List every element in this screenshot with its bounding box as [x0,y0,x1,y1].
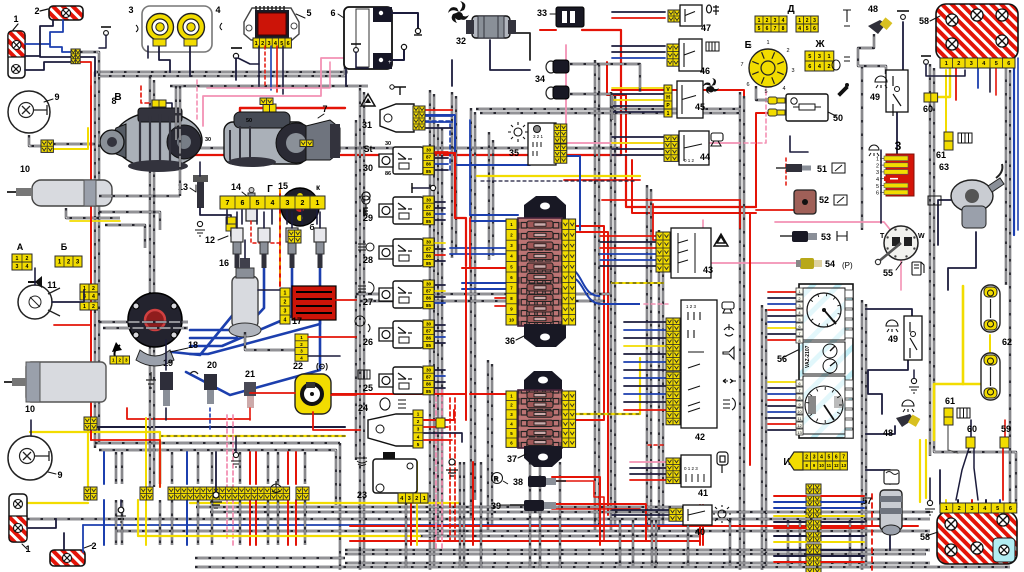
wire 58b feeds [945,500,947,512]
svg-text:86: 86 [426,162,432,167]
wire G strip drops [226,210,228,224]
svg-text:1: 1 [758,18,761,24]
wire 9b yellow link [30,420,32,436]
svg-text:23: 23 [357,490,367,500]
svg-text:7: 7 [226,200,230,207]
svg-text:15: 15 [278,181,288,191]
sensor 21 [244,382,256,396]
svg-text:+: + [388,60,392,66]
wire red vertical 653 [653,204,660,240]
wire 48a drop [858,34,886,74]
svg-text:21: 21 [245,369,255,379]
svg-text:37: 37 [507,454,517,464]
wire right bottom risers [599,505,601,545]
cluster pin strips [796,288,803,294]
svg-text:1: 1 [423,496,426,502]
svg-text:87: 87 [426,246,432,251]
svg-text:3: 3 [284,308,287,314]
svg-text:2: 2 [91,541,96,551]
svg-text:W: W [918,233,925,240]
lamp 24 [368,414,414,446]
svg-text:86: 86 [426,254,432,259]
svg-text:R: R [494,477,499,483]
ground symbols right [449,459,455,465]
symbol washer 16 [271,481,281,493]
lamp block 58 bottom [937,512,1017,564]
svg-text:3: 3 [774,18,777,24]
wire coil16 top [244,240,246,258]
svg-text:12: 12 [834,463,839,468]
wire box2 dark drop [40,20,71,57]
switch 47 [668,10,680,22]
svg-text:5: 5 [806,26,809,32]
relay 30 [393,147,423,174]
conn 61a [944,132,953,141]
wire red relay30 [425,153,466,266]
svg-text:87: 87 [426,374,432,379]
wire blue right edge from lamp58 [1013,58,1015,235]
wire red 59 drop [1002,448,1004,500]
svg-text:VAZ-2107: VAZ-2107 [805,345,811,368]
svg-text:61: 61 [945,396,955,406]
switch 35 [528,123,556,165]
wire box2b links [63,533,65,550]
conn horn 9a [41,140,53,152]
lamp block 58 top [936,4,1018,60]
ground bottom-left B [120,500,122,507]
svg-text:45: 45 [695,102,705,112]
unit 52 [794,190,816,214]
svg-text:17: 17 [292,316,302,326]
wire 22 red right [331,394,356,396]
svg-text:30: 30 [426,321,432,326]
regulator 17 [292,286,336,320]
capacitor 14 [246,202,257,221]
svg-text:3: 3 [813,454,816,460]
svg-text:4: 4 [26,264,29,270]
wire blue fusebox left pairs [470,214,518,216]
wire red y200 [602,200,740,228]
svg-text:5: 5 [876,184,879,190]
T symbol near 31 [394,87,406,95]
top mid connectors [260,98,273,105]
wire headlamp drops [159,46,170,72]
wire top horizontal y86 [170,85,368,87]
svg-text:31: 31 [362,120,372,130]
wire yellow bottom right risers [919,440,921,502]
T ground near module5 [231,47,242,49]
svg-text:44: 44 [700,152,710,162]
sensor 39 [524,500,544,511]
svg-text:6: 6 [1007,61,1010,67]
svg-text:87: 87 [426,154,432,159]
svg-text:2: 2 [415,496,418,502]
svg-text:Б: Б [61,242,68,252]
switch 45 [664,85,672,109]
svg-text:30: 30 [426,281,432,286]
fuel pump symbol [912,262,924,275]
unit 22 [295,374,331,414]
svg-text:49: 49 [888,334,898,344]
sensor 48b [896,414,914,427]
svg-text:38: 38 [513,477,523,487]
svg-text:1 2 3: 1 2 3 [686,304,697,309]
lamp symbol right [902,400,914,412]
wire 24 strip feeds [424,410,454,420]
svg-text:Д: Д [787,4,794,15]
svg-text:51: 51 [817,164,827,174]
wire switch column feeds [612,11,665,13]
svg-text:42: 42 [695,432,705,442]
wiper motor 63 [951,164,1004,228]
wire red fusebox stubs [462,267,518,269]
svg-text:4: 4 [417,434,420,439]
svg-text:54: 54 [825,259,835,269]
svg-text:35: 35 [509,148,519,158]
instrument cluster 56 [799,284,853,438]
sensor 19 [160,372,173,390]
svg-text:(P): (P) [842,261,853,270]
svg-text:1: 1 [13,14,18,24]
top-center T symbol [351,43,361,45]
svg-text:(⊙): (⊙) [316,362,328,371]
svg-text:2: 2 [417,419,420,424]
wire module5 drops [258,46,260,86]
svg-text:5: 5 [808,54,811,60]
svg-text:47: 47 [701,23,711,33]
wire pink dash pair left [226,415,228,540]
svg-text:86: 86 [426,336,432,341]
svg-text:5: 5 [417,442,420,447]
lamp 1 top-left [8,31,25,78]
svg-text:3: 3 [895,139,902,153]
svg-text:30: 30 [426,239,432,244]
svg-text:55: 55 [883,268,893,278]
right bottom colored horizontals [774,495,806,497]
wire top right horizontals [861,66,863,120]
top-right small symbols [843,10,851,26]
svg-text:1: 1 [16,256,19,262]
svg-text:30: 30 [426,147,432,152]
wire cylinder10a link [66,208,120,218]
wire pink center vertical [565,45,567,126]
conn 22 feeds [250,392,295,394]
svg-text:12: 12 [797,423,802,428]
svg-text:58: 58 [919,16,929,26]
svg-text:6: 6 [241,200,245,207]
svg-text:2: 2 [284,299,287,305]
svg-text:33: 33 [537,8,547,18]
svg-text:3: 3 [876,170,879,176]
conn 60b [966,437,975,448]
svg-text:2: 2 [766,18,769,24]
wire conn to frame [80,52,99,76]
wire cluster feed stubs [768,291,797,293]
switch 49b [904,316,922,360]
svg-text:48: 48 [868,4,878,14]
svg-text:2: 2 [301,200,305,207]
svg-text:8: 8 [111,96,116,106]
svg-text:62: 62 [1002,337,1012,347]
wire red artery y155 [170,30,621,155]
wire center bottom risers [405,462,407,568]
relay 28 [393,239,423,266]
wire 49a black [861,120,863,230]
sensor 20 [204,374,217,390]
wire 51 up [790,136,808,152]
svg-text:2: 2 [958,506,961,512]
wire y294 long horizontals [356,293,610,295]
svg-text:3: 3 [970,61,973,67]
conn near 15 [288,230,301,243]
wire pink dash to 42 top [644,303,668,305]
wire long horizontal y148 [170,147,620,149]
svg-text:86: 86 [385,171,391,177]
wire box1 lamp2 link [25,62,71,70]
svg-text:3: 3 [813,18,816,24]
wire red y419 [127,408,250,419]
washer tank 10a [32,180,112,206]
conn top-left [71,49,80,64]
svg-text:4: 4 [782,18,785,24]
svg-text:87: 87 [426,328,432,333]
svg-text:0 1 2: 0 1 2 [684,158,695,163]
lamps 62 [981,285,1000,332]
relay 27 [393,281,423,308]
svg-text:30: 30 [426,367,432,372]
svg-text:10: 10 [20,164,30,174]
conn pair mid-left [80,284,98,292]
wire 34 leads [570,64,640,92]
svg-text:58: 58 [920,532,930,542]
svg-text:19: 19 [163,358,173,368]
svg-text:48: 48 [883,428,893,438]
wire red to 52 [756,209,796,211]
svg-text:26: 26 [363,337,373,347]
svg-text:6: 6 [330,8,335,18]
fusebox 36 [524,196,566,220]
wire blue from 31 [425,115,530,165]
svg-text:6: 6 [287,41,290,47]
wire 13 drop [199,162,201,176]
bottom connector strip row [84,487,97,500]
lamp 1 bottom [9,494,27,542]
switch 43 [656,232,670,272]
svg-text:1: 1 [25,544,30,554]
wire plug tops [236,212,238,228]
svg-text:5: 5 [828,454,831,460]
svg-text:12: 12 [205,235,215,245]
svg-text:7: 7 [842,454,845,460]
svg-text:1: 1 [945,506,948,512]
svg-text:2: 2 [261,41,264,47]
wire red-yellow vertical x280 [279,190,281,286]
svg-text:85: 85 [426,219,432,224]
svg-text:2: 2 [957,61,960,67]
conn 60a [924,93,938,102]
svg-text:25: 25 [363,383,373,393]
svg-text:А: А [17,242,24,252]
wire motor32 dark [451,60,453,86]
ground pin mid relays [412,187,430,189]
T symbol top-left [101,26,111,28]
svg-text:24: 24 [358,403,368,413]
svg-text:2: 2 [26,256,29,262]
lamp sym 49a [875,76,887,88]
svg-text:3: 3 [267,41,270,47]
fuel sender 55 [884,226,918,260]
flasher 31 [380,104,414,132]
svg-text:3: 3 [818,54,821,60]
svg-text:36: 36 [505,336,515,346]
svg-text:2: 2 [827,64,830,70]
alternator 8 [100,108,202,172]
wire 33 red [540,29,556,31]
wire red pair x750 [749,213,751,465]
battery 6 [344,7,392,69]
ground bottom-left A [215,452,217,492]
svg-text:13: 13 [797,430,802,435]
strip G [220,196,325,209]
horn 11 [18,285,52,319]
svg-text:30: 30 [363,163,373,173]
svg-text:3: 3 [791,68,794,74]
svg-text:2: 2 [876,163,879,169]
horn 9b [8,436,52,480]
svg-text:1: 1 [316,200,320,207]
washer tank 10b [26,362,106,402]
switch 41 ignition [666,458,680,484]
wire right-of-fusebox verticals [594,60,596,530]
svg-text:10: 10 [819,463,824,468]
symbol near 49 top [869,145,879,156]
ground 23 col [233,452,238,457]
relay 29 [393,197,423,224]
wire right mid black runs [866,309,912,316]
wire pink second [207,62,330,88]
switch 42 symbols [722,302,736,410]
svg-text:85: 85 [426,261,432,266]
svg-text:50: 50 [246,118,252,124]
svg-text:34: 34 [535,74,545,84]
svg-text:8: 8 [782,26,785,32]
sensor 53 [792,231,808,242]
wire pink to 54 [703,262,800,264]
svg-text:85: 85 [426,343,432,348]
svg-text:86: 86 [426,296,432,301]
svg-text:3: 3 [417,427,420,432]
wire blue distributor loops [172,278,245,355]
svg-text:85: 85 [426,389,432,394]
svg-text:1: 1 [876,157,879,163]
svg-text:1: 1 [284,290,287,296]
svg-text:1: 1 [798,18,801,24]
ground near 13 [197,221,202,226]
svg-text:28: 28 [363,255,373,265]
svg-text:86: 86 [426,212,432,217]
wire red main left vertical [90,86,92,440]
strip 58 bottom [940,503,1017,513]
fusebox 37 [524,371,562,392]
svg-text:85: 85 [426,303,432,308]
svg-text:6: 6 [1009,506,1012,512]
svg-text:Г: Г [267,184,273,195]
svg-text:5: 5 [995,61,998,67]
wire 63 links [938,200,952,245]
svg-text:10: 10 [797,409,802,414]
switch 40 [669,508,683,521]
lamp sym 49b [886,320,898,332]
svg-text:7: 7 [774,26,777,32]
headlamp block 3-4 [142,6,212,52]
wire bottom left risers [103,452,105,484]
distributor 18 big [128,293,182,347]
svg-text:61: 61 [936,150,946,160]
svg-text:1: 1 [827,54,830,60]
relay 25 [393,367,423,394]
coil 16 [232,276,258,328]
motor 32 [472,16,510,38]
svg-text:Ж: Ж [814,39,825,50]
wire red left bottom link [91,440,160,487]
headlamp pin stubs [153,39,166,46]
wire right section verticals [739,92,741,570]
svg-text:7: 7 [322,104,327,114]
wire dark y427 [90,426,345,428]
wire center frame verticals [359,88,361,570]
svg-text:41: 41 [698,488,708,498]
wire yellow center horizontals [477,175,640,177]
wire blue 35 drop [566,156,580,230]
svg-text:5: 5 [256,200,260,207]
svg-text:18: 18 [188,340,198,350]
svg-text:20: 20 [207,360,217,370]
svg-text:2: 2 [786,48,789,54]
wire red fusebox right [520,226,604,420]
svg-text:10: 10 [509,317,514,322]
wire yellow right of 37 [566,358,640,414]
svg-text:32: 32 [456,36,466,46]
svg-text:2: 2 [806,18,809,24]
wire blue spark plug leads [190,268,250,330]
label 29 symbols [362,196,370,214]
wire red 50 run [240,108,345,139]
conn 61b [944,408,953,417]
wire red to relay50 [626,155,756,207]
svg-text:87: 87 [426,288,432,293]
lamp 2 top hatched [49,6,83,20]
switch 44 [664,135,678,161]
ignition module 5 [244,8,299,40]
svg-text:3 2 1: 3 2 1 [533,134,544,139]
svg-text:3: 3 [16,264,19,270]
wire red dash to 42 bottom [648,444,666,446]
T symbol left of 58 strip [921,55,931,57]
svg-text:30: 30 [426,197,432,202]
horn 9a [8,91,50,133]
wire blue fusebox pins56 [450,247,515,249]
svg-text:52: 52 [819,195,829,205]
wire yellow right 62 lamps [962,286,965,384]
starter 7 [224,112,340,167]
wire 17 right red [336,299,356,301]
svg-text:6: 6 [766,26,769,32]
wire center verticals cluster [451,92,453,258]
svg-text:2: 2 [92,286,95,292]
lamp 2 bottom hatched [50,550,85,566]
wire 19 20 21 drops [165,340,167,370]
svg-text:2: 2 [805,454,808,460]
